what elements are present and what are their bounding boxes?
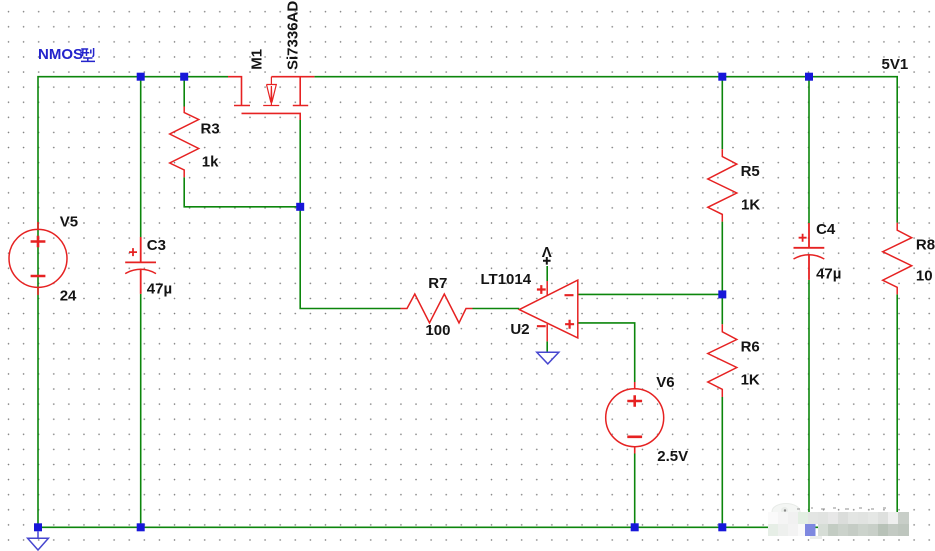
op-amp U2 supply pins: [546, 281, 548, 341]
svg-text:R5: R5: [741, 163, 760, 180]
svg-text:LT1014: LT1014: [481, 271, 532, 288]
wire opamp inverting input to R5/R6 node: [578, 293, 723, 295]
junction node top rail / C3: [137, 73, 145, 81]
svg-text:R6: R6: [741, 338, 760, 355]
svg-text:R3: R3: [201, 121, 220, 138]
wire opamp noninverting input to V6: [578, 323, 635, 382]
wire opamp negative supply to ground: [546, 341, 548, 352]
wire R3 bottom to gate node: [184, 177, 300, 207]
junction node top rail / C4: [805, 73, 813, 81]
transistor M1 source lead + right leg: [271, 77, 314, 106]
junction node top rail / R3: [180, 73, 188, 81]
svg-text:C3: C3: [147, 237, 166, 254]
transistor M1 drain lead + left leg: [228, 77, 250, 106]
wire R7 to opamp output: [473, 308, 520, 310]
svg-text:R8: R8: [916, 236, 935, 253]
wire R8 bottom: [896, 294, 898, 527]
op-amp U2 supply polarity marks: [537, 285, 546, 326]
wire C3 branch: [140, 77, 142, 528]
svg-text:Si7336ADP: Si7336ADP: [284, 0, 301, 70]
svg-text:1K: 1K: [741, 197, 760, 214]
junction node rail / C3: [137, 523, 145, 531]
svg-text:R7: R7: [428, 275, 447, 292]
wire R6 bottom to rail: [721, 397, 723, 527]
net label V+ plus sign: [543, 257, 551, 265]
capacitor C4: [794, 223, 825, 248]
ground symbol main rail: [28, 531, 49, 550]
wire V6 bottom to rail: [634, 454, 636, 528]
wire top rail right (MOSFET source to 5V1 corner): [314, 77, 897, 223]
voltage source V5: [9, 229, 67, 287]
junction node gate: [296, 203, 304, 211]
junction node R5/R6 feedback: [718, 290, 726, 298]
resistor R8: [883, 223, 912, 295]
transistor M1 body arrow: [263, 77, 279, 106]
watermark mosaic: [755, 496, 935, 546]
junction node rail / V5: [34, 523, 42, 531]
svg-text:5V1: 5V1: [882, 56, 909, 73]
capacitor C3: [125, 237, 156, 262]
resistor R7: [401, 294, 473, 323]
svg-text:2.5V: 2.5V: [657, 448, 688, 465]
wire R3 branch top: [183, 77, 185, 107]
junction node rail / V6: [631, 523, 639, 531]
resistor R3: [170, 107, 199, 178]
resistor R6: [708, 324, 737, 397]
svg-text:C4: C4: [816, 221, 836, 238]
wire R5 bottom to node: [721, 222, 723, 325]
wire gate node down to opamp output row: [300, 120, 400, 309]
svg-text:V5: V5: [60, 214, 78, 231]
svg-text:1k: 1k: [202, 154, 219, 171]
voltage source V6: [606, 389, 664, 447]
op-amp U2 input marks: [565, 295, 575, 329]
op-amp U2: [519, 280, 578, 338]
svg-text:V6: V6: [656, 374, 674, 391]
wire top rail left (V5 to MOSFET drain): [38, 77, 228, 295]
transistor M1 gate plate: [242, 113, 301, 120]
wire bottom ground rail: [38, 526, 897, 528]
svg-text:24: 24: [60, 288, 77, 305]
svg-text:NMOS: NMOS: [38, 46, 83, 63]
ground symbol op-amp: [537, 352, 559, 364]
wire C4 branch: [808, 77, 810, 528]
svg-text:100: 100: [425, 322, 450, 339]
svg-text:10: 10: [916, 267, 933, 284]
junction node top rail / R5: [718, 73, 726, 81]
svg-text:M1: M1: [248, 49, 265, 70]
wire R5 top: [721, 77, 723, 149]
resistor R5: [708, 149, 737, 222]
title kanji glyph (drawn): [80, 47, 96, 63]
svg-text:1K: 1K: [741, 372, 760, 389]
wire opamp positive supply stub: [546, 266, 548, 281]
svg-text:U2: U2: [510, 321, 529, 338]
junction node rail / R6: [718, 523, 726, 531]
svg-text:47µ: 47µ: [147, 280, 172, 297]
svg-text:47µ: 47µ: [816, 266, 841, 283]
wire V5 bottom to ground rail: [37, 295, 39, 527]
